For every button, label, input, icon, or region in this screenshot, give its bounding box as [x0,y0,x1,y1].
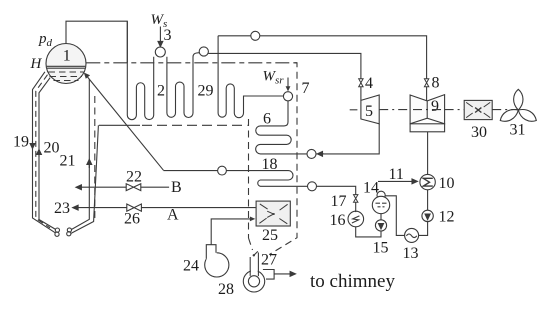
spray arrow Ws [158,27,163,47]
svg-text:2: 2 [157,83,165,100]
svg-text:12: 12 [439,209,455,226]
furnace interior dashed line (burner zone top) [99,124,248,126]
svg-text:to chimney: to chimney [310,271,395,292]
wire superheated steam to valve 4 [208,53,361,78]
cooling fan 31 [498,89,539,124]
economizer coil 18 [164,171,308,187]
riser / waterwall right (21) [71,80,89,230]
generator 30 [464,100,492,119]
shaft dash-dot line [350,109,519,111]
svg-text:Wsr: Wsr [263,69,285,87]
condensate pump 12 [422,210,433,221]
LP heater 13 [405,228,419,242]
svg-text:14: 14 [363,180,379,197]
wire pump 12 to heater 13 [419,222,428,236]
svg-text:4: 4 [365,75,373,92]
wire valve8 to turbine 9 [426,87,428,101]
valve 8 [424,79,428,87]
svg-text:B: B [171,179,182,196]
svg-text:13: 13 [403,245,419,262]
wire feedwater to economizer [317,186,356,194]
steam drum 1 [46,44,86,84]
wire deaerator to pump 15 [380,213,382,219]
svg-text:3: 3 [164,27,172,44]
svg-text:H: H [30,56,43,72]
IP/LP turbine 9 [410,95,445,132]
furnace left wall dashed boundary [94,96,96,219]
cold reheat circle [307,149,316,158]
svg-text:pd: pd [38,31,53,49]
deaerator 14 [372,191,389,214]
wire heater 16 to valve 17 [355,202,357,212]
svg-text:7: 7 [302,80,310,97]
cold reheat arrow into coil 6 [316,152,324,157]
reheater platen coil 29 [218,36,283,118]
svg-text:20: 20 [44,140,60,157]
svg-text:26: 26 [124,211,140,228]
condenser 10 [420,174,435,189]
convective pass right dashed wall [269,63,297,255]
svg-text:9: 9 [431,98,439,115]
downcomer pipe left (19/20) [33,72,56,233]
arrow 21 up [87,159,92,168]
svg-text:31: 31 [510,122,526,139]
header circles left [55,228,60,236]
svg-text:16: 16 [330,212,346,229]
arrow to chimney [274,272,295,277]
valve 26 [127,204,142,211]
svg-text:10: 10 [439,175,455,192]
circle on feedwater line [308,182,317,191]
circle on economizer feed line [218,166,227,175]
svg-text:5: 5 [365,103,373,120]
FD fan 24 [205,244,229,277]
wire heater 13 to deaerator [385,196,404,236]
HP turbine 5 [361,95,379,124]
arrow 20 up [37,150,42,158]
svg-text:19: 19 [13,134,29,151]
svg-text:23: 23 [54,200,70,217]
line A with arrow 23 [73,205,256,210]
arrow 11 [378,179,417,184]
svg-text:17: 17 [331,193,347,210]
circle on hot reheat line [251,31,260,40]
svg-text:6: 6 [263,111,271,128]
svg-text:15: 15 [373,240,389,257]
reheater coil 6 [256,101,307,154]
air heater 25 [256,201,290,226]
svg-text:24: 24 [183,258,199,275]
hot reheat line to valve 8 [218,36,427,79]
svg-text:29: 29 [198,83,214,100]
furnace interior right wall [71,125,98,233]
valve 22 [126,184,141,191]
ID fan 28 [243,253,274,292]
svg-text:28: 28 [218,281,234,298]
wire valve4 to turbine 5 [360,87,362,101]
wire drum steam outlet loop [66,21,127,63]
attemperator circle 3 [155,47,165,57]
valve 4 [359,79,363,87]
damper 27 [253,251,258,256]
svg-text:21: 21 [60,153,76,170]
valve 17 [354,195,358,203]
boiler furnace top dash-dot boundary [86,62,297,64]
superheater outlet circle [199,47,208,56]
svg-text:27: 27 [261,252,277,269]
reheat attemperator circle 7 [283,92,292,101]
arrow 19 down [30,141,35,149]
feed pump 15 [375,220,386,231]
header circles right [67,228,72,236]
HP heater 16 [348,211,364,227]
svg-text:22: 22 [126,169,142,186]
wire turbine 5 exhaust [322,124,379,154]
svg-text:11: 11 [389,166,404,183]
svg-text:1: 1 [63,48,71,65]
wire LP exhaust to condenser [427,132,429,175]
superheater coil 2 (second bank) [167,53,199,118]
svg-text:30: 30 [471,124,487,141]
svg-text:25: 25 [262,227,278,244]
spray arrow Wsr [286,78,291,92]
economizer to drum diagonal with arrow [84,73,164,171]
wire fan 24 to air heater [211,217,255,245]
svg-text:18: 18 [262,156,278,173]
convective pass left dashed wall [249,119,253,250]
wire condenser to pump 12 [427,190,429,210]
line B with arrow [76,185,169,190]
wire pump 15 to heater 16 [356,227,381,237]
svg-text:8: 8 [432,75,440,92]
superheater coil 2 (first bank) [127,21,153,119]
svg-text:A: A [167,207,179,224]
